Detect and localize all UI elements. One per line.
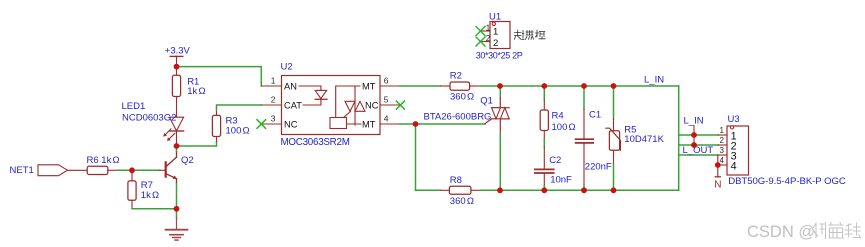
- svg-text:MT: MT: [362, 119, 376, 129]
- svg-text:R6 1kΩ: R6 1kΩ: [87, 155, 120, 166]
- svg-text:NET1: NET1: [10, 165, 34, 176]
- U1 pin 1 with no-connect X: [481, 30, 490, 32]
- svg-text:R4: R4: [552, 110, 564, 121]
- wire top rail L_IN: [482, 85, 679, 87]
- svg-text:R2: R2: [450, 70, 462, 81]
- U2 internal LED diode: [299, 85, 321, 87]
- svg-text:5: 5: [384, 95, 389, 105]
- node U3 pin1 junction: [691, 132, 697, 138]
- svg-text:R8: R8: [450, 175, 462, 186]
- wire U2 pin6 to R2: [399, 85, 440, 87]
- svg-text:2: 2: [486, 34, 491, 43]
- U1 name 散热块 (CJK mock strokes): [515, 30, 546, 39]
- svg-text:+3.3V: +3.3V: [165, 46, 191, 57]
- wire R7 bottom to emitter: [132, 208, 177, 210]
- svg-text:NC: NC: [284, 119, 298, 129]
- node C1 bottom junction: [581, 187, 587, 193]
- svg-text:2: 2: [493, 38, 498, 49]
- svg-text:1kΩ: 1kΩ: [187, 86, 205, 97]
- svg-text:U1: U1: [489, 11, 501, 22]
- U2 internal zero-cross box: [330, 118, 347, 129]
- svg-text:CAT: CAT: [284, 100, 302, 110]
- node U3 pin2 junction: [691, 142, 697, 148]
- svg-text:360Ω: 360Ω: [450, 196, 474, 207]
- wire U2 pin4 to gate node: [399, 123, 415, 125]
- svg-text:3: 3: [720, 146, 725, 155]
- svg-text:L_OUT: L_OUT: [683, 145, 714, 156]
- svg-text:360Ω: 360Ω: [450, 91, 474, 102]
- node Q1 bottom junction: [497, 187, 503, 193]
- node R5 top junction: [611, 83, 617, 89]
- node emitter/R7/gnd junction: [174, 206, 180, 212]
- U3 pin 2: [718, 144, 727, 146]
- wire branch to U3 pin2: [679, 144, 719, 146]
- svg-text:CSDN @: CSDN @: [747, 223, 815, 241]
- wire branch to U3 pin1: [679, 134, 719, 136]
- svg-text:1: 1: [486, 23, 491, 32]
- svg-text:100Ω: 100Ω: [226, 126, 250, 137]
- U2 internal triac: [336, 86, 360, 118]
- resistor R4: [543, 86, 545, 100]
- capacitor C1: [583, 86, 585, 109]
- svg-text:30*30*25 2P: 30*30*25 2P: [476, 51, 523, 61]
- resistor R3: [216, 137, 218, 142]
- svg-text:NCD0603G2: NCD0603G2: [122, 113, 176, 124]
- svg-text:U3: U3: [728, 114, 740, 125]
- svg-text:1kΩ: 1kΩ: [141, 190, 159, 201]
- U3 pin 1: [718, 134, 727, 136]
- svg-text:10D471K: 10D471K: [624, 134, 664, 145]
- node U2 pin4 gate junction: [413, 121, 419, 127]
- resistor R1: [176, 67, 178, 76]
- U2 pin 5 NC with no-connect X: [380, 104, 399, 106]
- svg-text:LED1: LED1: [122, 101, 146, 112]
- svg-text:1: 1: [493, 27, 498, 38]
- svg-text:MT: MT: [362, 81, 376, 91]
- wire bottom rail left segment: [416, 189, 441, 191]
- svg-text:BTA26-600BRG: BTA26-600BRG: [424, 111, 492, 122]
- wire bottom rail right segment: [480, 189, 679, 191]
- wire gate node down to bottom rail: [415, 124, 417, 190]
- svg-text:C2: C2: [549, 155, 561, 166]
- U3 pin 3: [718, 154, 727, 156]
- node R4 top junction: [541, 83, 547, 89]
- node R5 bottom junction: [611, 187, 617, 193]
- svg-text:2: 2: [720, 136, 725, 145]
- varistor R5 10D471K: [613, 86, 615, 119]
- svg-text:6: 6: [384, 76, 389, 86]
- svg-text:C1: C1: [589, 110, 601, 121]
- node C2 bottom junction: [541, 187, 547, 193]
- wire to ground: [176, 209, 178, 218]
- svg-text:100Ω: 100Ω: [552, 122, 576, 133]
- capacitor C2: [543, 147, 545, 169]
- resistor R7: [131, 170, 133, 181]
- svg-text:2: 2: [271, 95, 276, 105]
- wire port to R6: [68, 169, 88, 171]
- wire R3 top to U2 pin2: [217, 105, 262, 111]
- svg-text:MOC3063SR2M: MOC3063SR2M: [281, 137, 350, 148]
- ground: [166, 229, 188, 231]
- svg-text:Q1: Q1: [480, 95, 493, 106]
- wire pin3 to pin4 and N: [717, 155, 719, 177]
- svg-text:NC: NC: [365, 100, 379, 110]
- node R6/R7/base junction: [129, 167, 135, 173]
- wire gate node to Q1 gate: [416, 123, 486, 125]
- wire node to Q2 base: [132, 169, 160, 171]
- U1 pin 2 with no-connect X: [481, 41, 490, 43]
- node LED cathode junction: [174, 143, 180, 149]
- svg-text:Q2: Q2: [181, 155, 194, 166]
- svg-text:U2: U2: [281, 62, 293, 73]
- svg-text:AN: AN: [284, 81, 297, 91]
- svg-text:DBT50G-9.5-4P-BK-P OGC: DBT50G-9.5-4P-BK-P OGC: [728, 176, 846, 187]
- U2 pin 6 MT: [380, 85, 399, 87]
- svg-text:L_IN: L_IN: [644, 75, 664, 86]
- U2 pin 4 MT: [380, 123, 399, 125]
- U2 pin 3 NC with no-connect X: [261, 123, 281, 125]
- wire R6 to base node: [117, 169, 132, 171]
- svg-text:N: N: [714, 180, 721, 191]
- port NET1: [38, 165, 68, 176]
- svg-text:1: 1: [720, 126, 725, 135]
- svg-text:4: 4: [384, 114, 389, 124]
- U3 pin 4: [718, 164, 727, 166]
- U2 pin 2 CAT: [261, 104, 281, 106]
- node Q1 top rail junction: [497, 83, 503, 89]
- svg-text:1: 1: [271, 76, 276, 86]
- U2 pin 1 AN: [261, 85, 281, 87]
- wire Q2 collector up: [176, 146, 178, 151]
- wire +3.3V to U2 pin1: [177, 67, 262, 86]
- svg-text:4: 4: [731, 160, 737, 172]
- node +3.3V junction: [174, 64, 180, 70]
- wire branch to U3 pin3 L_OUT: [679, 154, 718, 156]
- svg-text:L_IN: L_IN: [684, 115, 704, 126]
- wire Q2 emitter down: [176, 184, 178, 209]
- node C1 top junction: [581, 83, 587, 89]
- wire right vertical bus: [678, 86, 680, 190]
- svg-text:10nF: 10nF: [550, 174, 572, 185]
- svg-text:3: 3: [271, 114, 276, 124]
- LED LED1: [169, 117, 183, 131]
- svg-text:220nF: 220nF: [585, 162, 612, 173]
- wire LED node to R3: [177, 142, 217, 147]
- node U3 pin4 junction: [715, 162, 721, 168]
